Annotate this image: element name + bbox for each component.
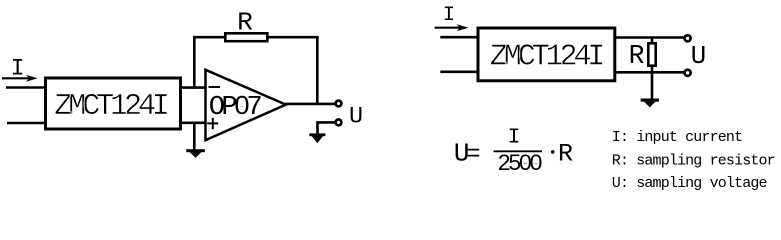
wire: secondary bottom output to non-inverting input	[181, 122, 206, 125]
terminal: ground reference (left circuit)	[336, 120, 342, 126]
svg-text:R: sampling resistor: R: sampling resistor	[612, 152, 775, 169]
svg-text:2500: 2500	[497, 151, 542, 177]
wire: ground terminal to ground symbol	[318, 122, 336, 134]
wire: secondary top output (right circuit)	[614, 36, 684, 39]
wire: sampling resistor bottom stub through bottom wire to ground	[651, 65, 654, 99]
svg-text:OP07: OP07	[209, 92, 262, 123]
svg-text:ZMCT124I: ZMCT124I	[490, 40, 604, 74]
formula: U = I/2500 * R	[454, 126, 573, 177]
transformer T1: ZMCT124I current transformer (left circuit)	[46, 78, 181, 129]
wire: non-inverting ground tap vertical	[193, 122, 196, 150]
ground : output reference ground (left circuit)	[309, 133, 325, 143]
wire: feedback right vertical down to output node	[316, 36, 319, 105]
op-amp U1 : OP07	[206, 70, 286, 140]
wire: bottom primary input (right circuit)	[440, 71, 479, 74]
svg-text:U: U	[349, 103, 363, 130]
svg-text:U: U	[691, 41, 707, 71]
svg-text:I: I	[443, 4, 455, 27]
svg-text:I: input current: I: input current	[612, 129, 742, 146]
wire: op-amp output to terminal	[285, 103, 336, 106]
wire: top primary input (right circuit)	[440, 36, 479, 39]
svg-text:R: R	[237, 7, 253, 37]
terminal: output U bottom (right circuit)	[685, 70, 691, 76]
svg-text:ZMCT124I: ZMCT124I	[54, 90, 168, 124]
svg-text:=: =	[466, 141, 480, 168]
resistor R : sampling resistor (right circuit)	[648, 43, 655, 65]
resistor R : feedback resistor (left circuit)	[225, 33, 267, 41]
ground : non-inverting input ground (left circuit)	[186, 149, 205, 158]
terminal: output U (left circuit)	[336, 101, 342, 107]
wire: top primary input (left circuit)	[6, 86, 46, 89]
wire: feedback top horizontal, right of R	[268, 36, 319, 39]
wire: secondary top output to inverting input	[181, 86, 206, 89]
transformer T2: ZMCT124I current transformer (right circuit)	[478, 28, 615, 81]
wire: input current direction arrow (left circuit)	[2, 75, 38, 82]
wire: bottom primary input (left circuit)	[7, 122, 46, 125]
wire: input current direction arrow (right circuit)	[435, 24, 469, 31]
svg-text:U: sampling voltage: U: sampling voltage	[612, 175, 768, 192]
ground : sampling resistor ground (right circuit)	[641, 99, 659, 108]
svg-text:R: R	[629, 41, 645, 71]
svg-text:I: I	[508, 126, 521, 150]
wire: sampling resistor top stub	[651, 37, 654, 45]
wire: feedback top horizontal, left of R	[193, 36, 225, 39]
wire: secondary bottom output (right circuit)	[614, 71, 684, 74]
svg-text:R: R	[558, 139, 573, 168]
terminal: output U top (right circuit)	[685, 35, 691, 41]
wire: feedback tap vertical (inverting node up to R)	[193, 36, 196, 89]
